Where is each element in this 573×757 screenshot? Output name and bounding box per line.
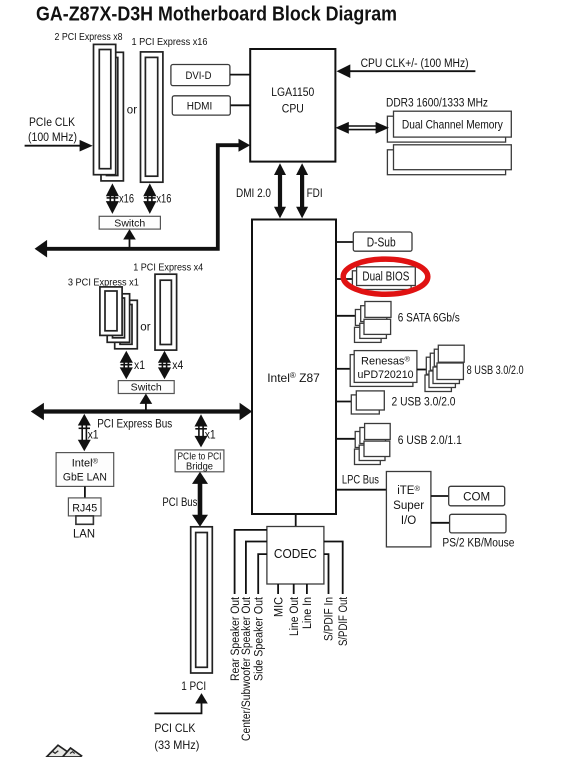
PCIe slot x8 front bbox=[94, 44, 116, 174]
arrow bridge x1 double bbox=[195, 414, 208, 447]
label DMI 2.0 bbox=[236, 188, 271, 200]
wire GbE to RJ45 bbox=[84, 486, 86, 498]
label PCIe CLK (100 MHz) bbox=[28, 117, 77, 144]
label MIC bbox=[273, 597, 285, 617]
svg-text:S/PDIF In: S/PDIF In bbox=[324, 597, 336, 641]
memory module front 1 Dual Channel Memory bbox=[394, 111, 512, 137]
svg-text:Line In: Line In bbox=[302, 597, 314, 629]
memory module back 2 bbox=[387, 150, 505, 175]
label Rear Speaker Out bbox=[230, 596, 242, 681]
wire iTE to COM bbox=[431, 495, 449, 497]
svg-text:S/PDIF Out: S/PDIF Out bbox=[338, 596, 350, 646]
label DDR3 1600/1333 MHz bbox=[386, 98, 488, 110]
svg-text:Super: Super bbox=[393, 500, 424, 512]
svg-text:1 PCI Express x16: 1 PCI Express x16 bbox=[132, 36, 208, 48]
wire chipset to SATA bbox=[336, 315, 356, 317]
arrow x1 double bbox=[120, 351, 133, 380]
label x16 left bbox=[119, 193, 134, 205]
wire Center/Subwoofer Speaker Out bbox=[246, 542, 267, 595]
label PCI Express Bus bbox=[97, 416, 172, 430]
wire chipset to 6 USB bbox=[336, 438, 356, 440]
svg-text:2 USB 3.0/2.0: 2 USB 3.0/2.0 bbox=[392, 397, 456, 409]
label LPC Bus bbox=[342, 475, 379, 487]
label 8 USB 3.0/2.0 bbox=[467, 365, 524, 377]
svg-text:1 PCI: 1 PCI bbox=[181, 679, 206, 693]
svg-text:1 PCI Express x4: 1 PCI Express x4 bbox=[133, 262, 203, 274]
label x16 right bbox=[156, 193, 171, 205]
svg-text:uPD720210: uPD720210 bbox=[358, 369, 414, 381]
wire PCI Bus thick arrow bbox=[192, 472, 208, 527]
label Line In bbox=[302, 597, 314, 629]
svg-text:DVI-D: DVI-D bbox=[186, 70, 212, 82]
wire DVI-D to CPU bbox=[230, 74, 250, 76]
DVI-D box bbox=[171, 65, 230, 86]
svg-text:Center/Subwoofer Speaker Out: Center/Subwoofer Speaker Out bbox=[241, 596, 253, 741]
switch box top bbox=[99, 216, 160, 229]
iTE Super I/O box bbox=[386, 472, 431, 547]
label PCI Bus bbox=[162, 495, 197, 509]
CPU box LGA1150 bbox=[250, 49, 335, 162]
label CPU CLK bbox=[361, 58, 469, 70]
svg-text:HDMI: HDMI bbox=[187, 101, 213, 113]
svg-text:Dual BIOS: Dual BIOS bbox=[362, 270, 409, 284]
arrow x16 left double bbox=[106, 183, 119, 214]
wire Line In bbox=[306, 584, 308, 594]
wire iTE to PS/2 bbox=[431, 522, 450, 524]
label Center/Subwoofer Speaker Out bbox=[241, 596, 253, 741]
PCI Express x1 slot 1 bbox=[100, 287, 122, 336]
RJ45 box bbox=[68, 498, 101, 516]
wire S/PDIF Out bbox=[324, 542, 343, 595]
wire Renesas to 8 USB bbox=[417, 369, 427, 371]
label PCI CLK (33 MHz) bbox=[154, 721, 199, 752]
wire HDMI to CPU bbox=[231, 104, 251, 106]
wire S/PDIF In bbox=[324, 554, 329, 594]
PCI Express x4 slot bbox=[155, 274, 177, 350]
svg-text:CPU CLK+/- (100 MHz): CPU CLK+/- (100 MHz) bbox=[361, 58, 469, 70]
wire chipset to CODEC bbox=[295, 514, 297, 527]
svg-text:D-Sub: D-Sub bbox=[367, 235, 396, 249]
svg-text:GA-Z87X-D3H Motherboard Block: GA-Z87X-D3H Motherboard Block Diagram bbox=[36, 3, 397, 26]
wire PCI Express Bus thick bbox=[31, 403, 252, 421]
svg-text:6 SATA 6Gb/s: 6 SATA 6Gb/s bbox=[398, 313, 460, 325]
switch box bottom bbox=[118, 381, 174, 394]
2 USB box bbox=[351, 391, 384, 414]
svg-text:I/O: I/O bbox=[401, 515, 416, 527]
label or (top) bbox=[127, 105, 137, 117]
Intel GbE LAN box bbox=[56, 453, 114, 487]
wire Rear Speaker Out bbox=[235, 530, 267, 594]
wire chipset to Dual BIOS bbox=[336, 278, 352, 280]
svg-text:PCI Bus: PCI Bus bbox=[162, 495, 197, 509]
svg-text:FDI: FDI bbox=[307, 188, 323, 200]
svg-text:x1: x1 bbox=[134, 360, 145, 372]
label FDI bbox=[307, 188, 323, 200]
label x1 GbE bbox=[88, 430, 99, 442]
label x4 bbox=[172, 360, 184, 372]
label 2 USB 3.0/2.0 bbox=[392, 397, 456, 409]
wire PCIe CLK arrow bbox=[25, 140, 93, 152]
wire Side Speaker Out bbox=[258, 554, 267, 594]
svg-text:Renesas®: Renesas® bbox=[361, 355, 410, 368]
label Line Out bbox=[289, 596, 301, 636]
svg-text:CODEC: CODEC bbox=[274, 547, 317, 561]
label 1 PCI Express x4 bbox=[133, 262, 203, 274]
CODEC box bbox=[267, 527, 324, 585]
arrow x16 right double bbox=[143, 183, 156, 214]
wire thick L bus to CPU bbox=[35, 139, 251, 258]
label 2 PCI Express x8 bbox=[55, 31, 123, 43]
8 USB stack bbox=[425, 345, 464, 391]
wire Line Out bbox=[293, 584, 295, 594]
svg-text:PS/2 KB/Mouse: PS/2 KB/Mouse bbox=[442, 538, 514, 550]
svg-text:(33 MHz): (33 MHz) bbox=[154, 738, 199, 752]
Dual BIOS front box bbox=[357, 267, 416, 286]
svg-text:x16: x16 bbox=[119, 193, 134, 205]
wire PCI CLK bbox=[154, 693, 207, 713]
svg-text:MIC: MIC bbox=[273, 597, 285, 617]
label 6 SATA 6Gb/s bbox=[398, 313, 460, 325]
title bbox=[36, 3, 397, 26]
label 1 PCI Express x16 bbox=[132, 36, 208, 48]
label 3 PCI Express x1 bbox=[68, 276, 139, 288]
PCIe slot x16 bbox=[141, 52, 163, 182]
svg-text:8 USB 3.0/2.0: 8 USB 3.0/2.0 bbox=[467, 365, 524, 377]
svg-text:or: or bbox=[127, 105, 137, 117]
wire chipset to 2 USB bbox=[336, 401, 354, 403]
Dual BIOS back box bbox=[352, 271, 411, 290]
svg-text:x4: x4 bbox=[172, 360, 184, 372]
label or (bottom) bbox=[140, 322, 150, 334]
svg-text:Rear Speaker Out: Rear Speaker Out bbox=[230, 596, 242, 681]
PCIe slot x8 back bbox=[101, 52, 123, 181]
svg-text:x16: x16 bbox=[156, 193, 171, 205]
svg-text:Dual Channel Memory: Dual Channel Memory bbox=[402, 118, 503, 132]
arrow CPU to memory double bbox=[335, 122, 389, 134]
wire chipset to D-Sub bbox=[336, 241, 353, 243]
wire switch to bus arrow up bbox=[123, 229, 136, 249]
svg-text:GbE LAN: GbE LAN bbox=[63, 472, 107, 484]
wire bus to switch arrow up bbox=[140, 394, 153, 412]
svg-text:DMI 2.0: DMI 2.0 bbox=[236, 188, 271, 200]
decorative corner graphic bbox=[47, 745, 82, 757]
svg-text:x1: x1 bbox=[88, 430, 99, 442]
HDMI box bbox=[172, 96, 230, 115]
svg-text:(100 MHz): (100 MHz) bbox=[28, 132, 77, 144]
label x1 (switch) bbox=[134, 360, 145, 372]
svg-text:PCIe CLK: PCIe CLK bbox=[29, 117, 75, 129]
Renesas shadow box bbox=[350, 355, 413, 387]
6 SATA stack bbox=[355, 302, 392, 343]
svg-text:RJ45: RJ45 bbox=[72, 503, 97, 515]
svg-text:Line Out: Line Out bbox=[289, 596, 301, 636]
PCI Express x1 slot 2 bbox=[107, 294, 129, 343]
arrow GbE x1 double bbox=[78, 414, 91, 451]
svg-text:PCI Express Bus: PCI Express Bus bbox=[97, 416, 172, 430]
svg-text:PCI CLK: PCI CLK bbox=[154, 721, 195, 735]
label S/PDIF Out bbox=[338, 596, 350, 646]
svg-text:LAN: LAN bbox=[73, 527, 95, 541]
COM box bbox=[449, 486, 505, 506]
svg-text:Side Speaker Out: Side Speaker Out bbox=[253, 596, 265, 681]
svg-text:CPU: CPU bbox=[282, 104, 304, 116]
arrow FDI bbox=[296, 163, 308, 218]
svg-text:DDR3 1600/1333 MHz: DDR3 1600/1333 MHz bbox=[386, 98, 488, 110]
LAN connector bbox=[76, 516, 94, 524]
label LAN bbox=[73, 527, 95, 541]
label PS/2 KB/Mouse bbox=[442, 538, 514, 550]
svg-text:2 PCI Express x8: 2 PCI Express x8 bbox=[55, 31, 123, 43]
svg-text:Switch: Switch bbox=[114, 217, 145, 229]
red ellipse highlight bbox=[343, 259, 428, 294]
PCI slot bbox=[191, 527, 213, 673]
label Side Speaker Out bbox=[253, 596, 265, 681]
wire LPC bus bbox=[336, 489, 386, 491]
PS/2 box bbox=[450, 514, 506, 533]
Renesas uPD720210 box bbox=[354, 351, 417, 383]
memory module back 1 bbox=[387, 116, 505, 142]
svg-text:x1: x1 bbox=[205, 430, 216, 442]
wire chipset to Renesas bbox=[336, 368, 352, 370]
wire CPU CLK arrow bbox=[337, 64, 476, 78]
svg-text:6 USB 2.0/1.1: 6 USB 2.0/1.1 bbox=[398, 435, 462, 447]
PCI Express x1 slot 3 bbox=[115, 300, 138, 349]
PCIe to PCI Bridge box bbox=[175, 450, 224, 472]
svg-text:COM: COM bbox=[463, 492, 490, 504]
arrow x4 double bbox=[158, 351, 171, 380]
svg-text:LPC Bus: LPC Bus bbox=[342, 475, 379, 487]
svg-text:or: or bbox=[140, 322, 150, 334]
6 USB stack bbox=[355, 424, 391, 465]
label x1 bridge bbox=[205, 430, 216, 442]
arrow DMI bbox=[274, 163, 286, 218]
svg-text:LGA1150: LGA1150 bbox=[271, 87, 314, 99]
label S/PDIF In bbox=[324, 597, 336, 641]
memory module front 2 bbox=[394, 145, 512, 170]
svg-text:Bridge: Bridge bbox=[186, 461, 213, 472]
label 1 PCI bbox=[181, 679, 206, 693]
wire MIC bbox=[277, 584, 279, 594]
label 6 USB 2.0/1.1 bbox=[398, 435, 462, 447]
D-Sub box bbox=[353, 232, 412, 251]
chipset box Intel Z87 bbox=[252, 220, 336, 515]
svg-text:Switch: Switch bbox=[131, 382, 162, 394]
